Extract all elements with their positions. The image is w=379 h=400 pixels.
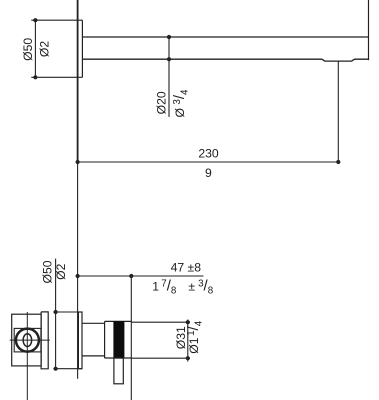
spout tube bottom line with aerator notch	[82, 59, 368, 61]
svg-text:17/8±3/8: 17/8±3/8	[152, 277, 213, 296]
svg-text:Ø 3/4: Ø 3/4	[171, 89, 190, 118]
dimension line O50 (top)	[34, 20, 36, 77]
handle top line	[105, 320, 132, 322]
handle bottom line	[105, 357, 132, 359]
outlet extension line	[337, 61, 339, 162]
extension line top of valve escutcheon	[53, 311, 82, 313]
handle black grip	[113, 321, 124, 358]
dimension line O50 (lower)	[55, 259, 57, 371]
lever stem	[114, 358, 123, 384]
cartridge circle	[16, 329, 39, 352]
svg-text:47 ±8: 47 ±8	[171, 260, 202, 274]
spout flange (escutcheon at wall, top assembly)	[81, 20, 83, 77]
extension line top of flange	[31, 19, 82, 21]
svg-text:Ø50: Ø50	[21, 38, 35, 61]
crosshair vertical	[26, 312, 28, 400]
svg-text:Ø50: Ø50	[41, 260, 55, 283]
svg-text:9: 9	[205, 166, 212, 180]
extension line bottom of valve escutcheon	[53, 368, 82, 370]
spout end cap / extension line going up	[368, 0, 370, 60]
collar cylinder bottom	[82, 355, 105, 357]
handle step line	[104, 321, 106, 358]
wall line (upper thick part)	[77, 0, 79, 162]
extension line bottom of flange	[31, 76, 82, 78]
svg-text:Ø20: Ø20	[155, 91, 169, 114]
dimension line 230	[78, 161, 339, 163]
in-wall valve body	[12, 314, 41, 366]
dimension line 47 (lower)	[78, 275, 204, 277]
O31 dimension line	[187, 320, 189, 362]
spout tube top line	[82, 36, 368, 38]
valve body lip ring	[41, 312, 48, 369]
dimension leader O20	[168, 37, 170, 117]
O31 extension top	[131, 321, 190, 323]
crosshair horizontal	[10, 339, 50, 341]
valve escutcheon plate	[78, 312, 82, 369]
cartridge inner ellipse	[23, 334, 32, 347]
wall line (lower thin continuation)	[77, 162, 79, 379]
O31 extension bottom	[131, 357, 190, 359]
cartridge square	[14, 328, 41, 352]
svg-text:Ø2: Ø2	[54, 263, 68, 279]
collar cylinder top	[82, 322, 105, 324]
handle end extension line	[130, 276, 132, 400]
svg-text:230: 230	[198, 147, 219, 161]
svg-text:Ø2: Ø2	[38, 41, 52, 57]
